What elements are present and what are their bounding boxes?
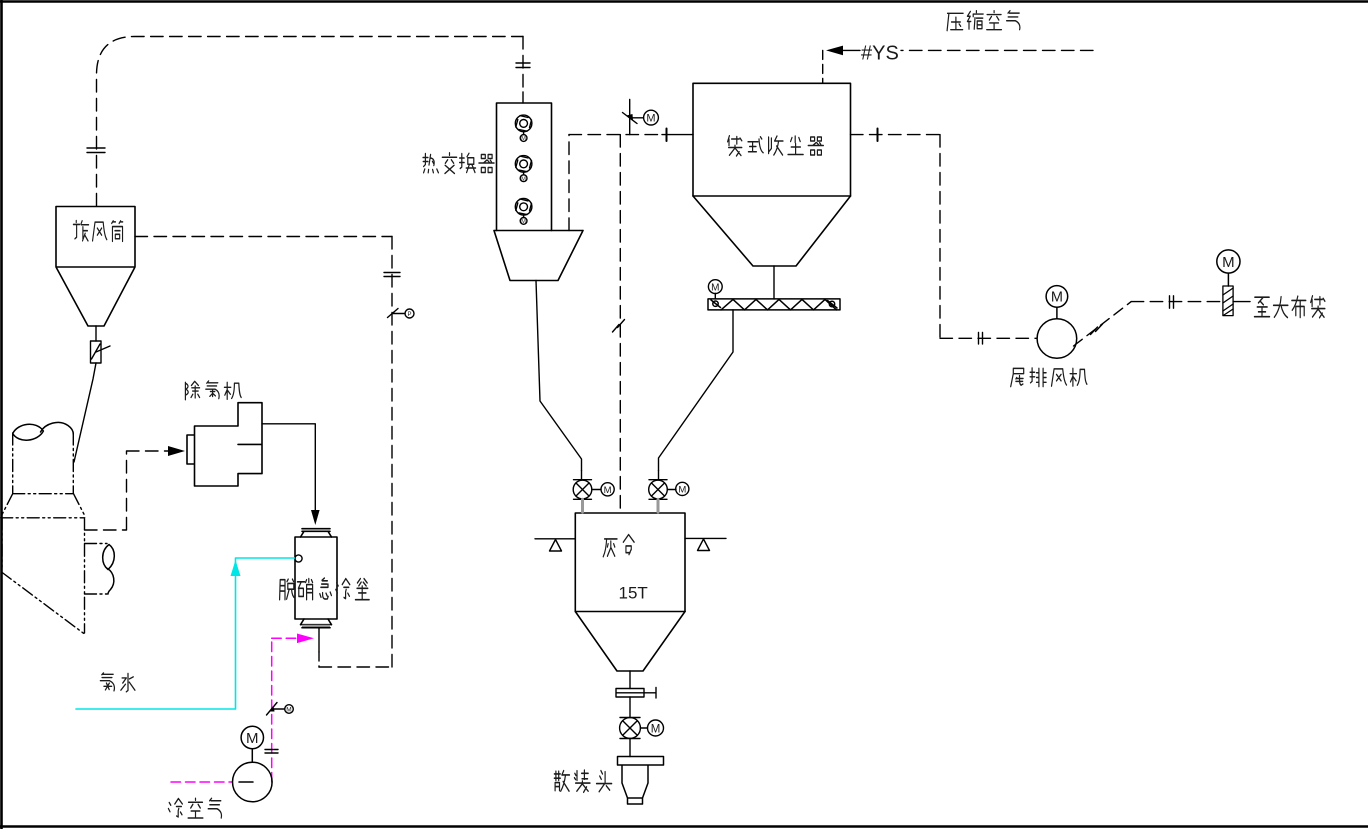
silencer hatched element (1223, 286, 1233, 316)
ammonia flow arrow cyan (231, 560, 241, 576)
wire: poke tube dashed down to silo (619, 135, 621, 512)
quench vessel bottom outlet stub (318, 628, 320, 652)
wire: cyclone outlet dashed to recycle riser (135, 236, 392, 238)
cyclone outlet stub (95, 326, 97, 341)
rotary valve with motor under silo (620, 718, 664, 739)
wire: fan outlet diagonal dashed (1074, 302, 1132, 346)
heat exchanger 热交换器 body (497, 103, 552, 231)
svg-text:M: M (651, 723, 661, 735)
svg-text:M: M (286, 706, 291, 713)
gray stem left valve to silo (581, 499, 584, 512)
arrow into chlorine remover (168, 446, 185, 456)
label 至大布袋 to big bag (1254, 296, 1324, 318)
break symbol on poke tube (613, 320, 625, 333)
silo inlet valve right with motor (649, 480, 689, 500)
cyclone 旋风筒 body (56, 207, 135, 327)
silo hopper (575, 612, 685, 672)
label 除氯机 chlorine remover (185, 381, 241, 400)
screw conveyor under bag filter (708, 299, 840, 310)
heat exchanger fan unit 3 (515, 199, 532, 226)
wire: down to tail fan (940, 135, 1037, 339)
flange tick on bag filter outlet (877, 129, 879, 142)
wire: heat exchanger inlet drop (522, 37, 524, 93)
wire: quench vessel outlet dashed to riser (319, 666, 392, 668)
flap valve under cyclone (91, 341, 111, 363)
label 热交换器 heat exchanger (423, 153, 494, 174)
wire: dashed duct to bag filter inlet (569, 134, 662, 136)
label 压缩空气 compressed air (947, 11, 1020, 31)
svg-text:M: M (1051, 290, 1063, 306)
bag filter discharge stub (773, 266, 775, 299)
wire: cyclone gas riser dashed with elbow to heat exchanger (97, 37, 524, 207)
bulk loading head 散装头 (618, 757, 664, 805)
butterfly valve with motor on poke tube (623, 100, 659, 135)
svg-text:M: M (678, 485, 686, 496)
bag filter hopper (693, 196, 851, 266)
label 氨水 ammonia water (100, 673, 135, 692)
label #YS (861, 43, 899, 65)
ammonia line cyan 氨水 (76, 558, 295, 709)
label 散装头 bulk loading head (554, 770, 611, 792)
bag filter dust chute to silo (659, 310, 734, 471)
wire: kiln outlet dashed to chlorine remover (85, 451, 169, 530)
pipe break ticks on cyclone riser (87, 148, 105, 153)
label 脱硝急冷釜 quench vessel (280, 578, 370, 600)
svg-text:M: M (604, 485, 612, 496)
cold air fan motor M (241, 726, 263, 762)
cold air flow arrow magenta (297, 634, 314, 644)
kiln side nozzle with break lens (85, 544, 108, 595)
border frame bottom (0, 825, 1368, 828)
svg-text:M: M (521, 136, 526, 142)
label 旋风筒 cyclone (73, 221, 122, 242)
pipe break ticks on diagonal (1091, 324, 1103, 335)
kiln inlet chamber (phantom lines) (1, 433, 85, 634)
gray stem right valve to silo (657, 499, 660, 512)
feed stems into valves (582, 471, 659, 480)
pipe break ticks on magenta riser (265, 750, 278, 754)
wire: compressed air dashed line (901, 49, 1093, 51)
wire: recycle riser down (391, 237, 393, 668)
svg-text:M: M (1222, 254, 1235, 271)
label 15T (619, 584, 648, 603)
border frame top (0, 0, 1368, 3)
arrow into quench vessel top (311, 510, 320, 525)
svg-text:M: M (246, 730, 259, 747)
pipe break ticks on recycle riser (384, 273, 400, 277)
label 尾排风机 tail exhaust fan (1011, 368, 1087, 387)
wire: stub to big bag label (1233, 301, 1250, 303)
butterfly valve on magenta riser with M (267, 703, 294, 716)
silo support left (535, 539, 575, 551)
kiln top break lens and arc (13, 422, 74, 440)
wire: bag filter outlet dashed right (851, 134, 941, 136)
quench vessel 脱硝急冷釜 body (295, 537, 337, 619)
wire: quench outlet dashed down (318, 652, 320, 667)
quench vessel side nozzle circle (295, 555, 302, 562)
svg-text:15T: 15T (619, 584, 648, 603)
wire: dashed to silencer (1131, 301, 1223, 303)
cold air line magenta horizontal (171, 781, 232, 783)
svg-text:M: M (711, 282, 719, 293)
stem to bulk loader (629, 739, 631, 757)
heat exchanger hopper (494, 231, 583, 281)
heat exchanger fan unit 1 (515, 115, 532, 142)
silencer motor M (1217, 250, 1240, 286)
chlorine remover 除氯机 body (187, 403, 262, 486)
svg-text:M: M (646, 113, 655, 125)
heat exchanger discharge chute to silo (536, 281, 582, 471)
pipe break ticks before fan (979, 333, 983, 345)
silo discharge stem (629, 671, 631, 689)
quench vessel top flange (301, 529, 332, 537)
slide gate valve under silo (616, 688, 656, 699)
svg-text:#YS: #YS (861, 43, 899, 65)
heat exchanger fan unit 2 (515, 156, 532, 183)
svg-text:M: M (521, 219, 526, 225)
compressed air arrow (826, 46, 843, 56)
label 灰仓 ash silo (603, 535, 634, 557)
tail fan 尾排风机 circle (1037, 319, 1077, 359)
ash silo 灰仓 body (575, 513, 685, 612)
silo inlet valve left with motor (573, 480, 614, 500)
pipe break ticks before silencer (1170, 296, 1174, 308)
border frame left (0, 0, 3, 829)
svg-text:M: M (521, 176, 526, 182)
wire: heat exchanger outlet dashed up (568, 135, 570, 231)
wire: YS drop to bag filter (843, 49, 860, 51)
silo support right (685, 538, 726, 550)
pipe break ticks on heat exchanger riser (516, 63, 530, 68)
screw conveyor motor M (708, 280, 722, 299)
stem to rotary valve (629, 697, 631, 718)
cyclone dip leg to kiln (74, 363, 96, 462)
pressure tap with instrument circle (388, 309, 415, 319)
label 袋式收尘器 bag dust collector (728, 136, 824, 156)
svg-text:P: P (407, 312, 411, 318)
quench vessel bottom flange (301, 619, 332, 628)
wire: chlorine remover to quench vessel (262, 424, 315, 510)
bag filter 袋式收尘器 body (693, 83, 851, 196)
cold air line magenta riser (272, 638, 298, 782)
cold air fan circle (233, 762, 273, 802)
flange tick and solid stub at bag filter inlet (666, 129, 668, 142)
tail fan motor M (1046, 286, 1068, 319)
label 冷空气 cold air (168, 798, 221, 818)
